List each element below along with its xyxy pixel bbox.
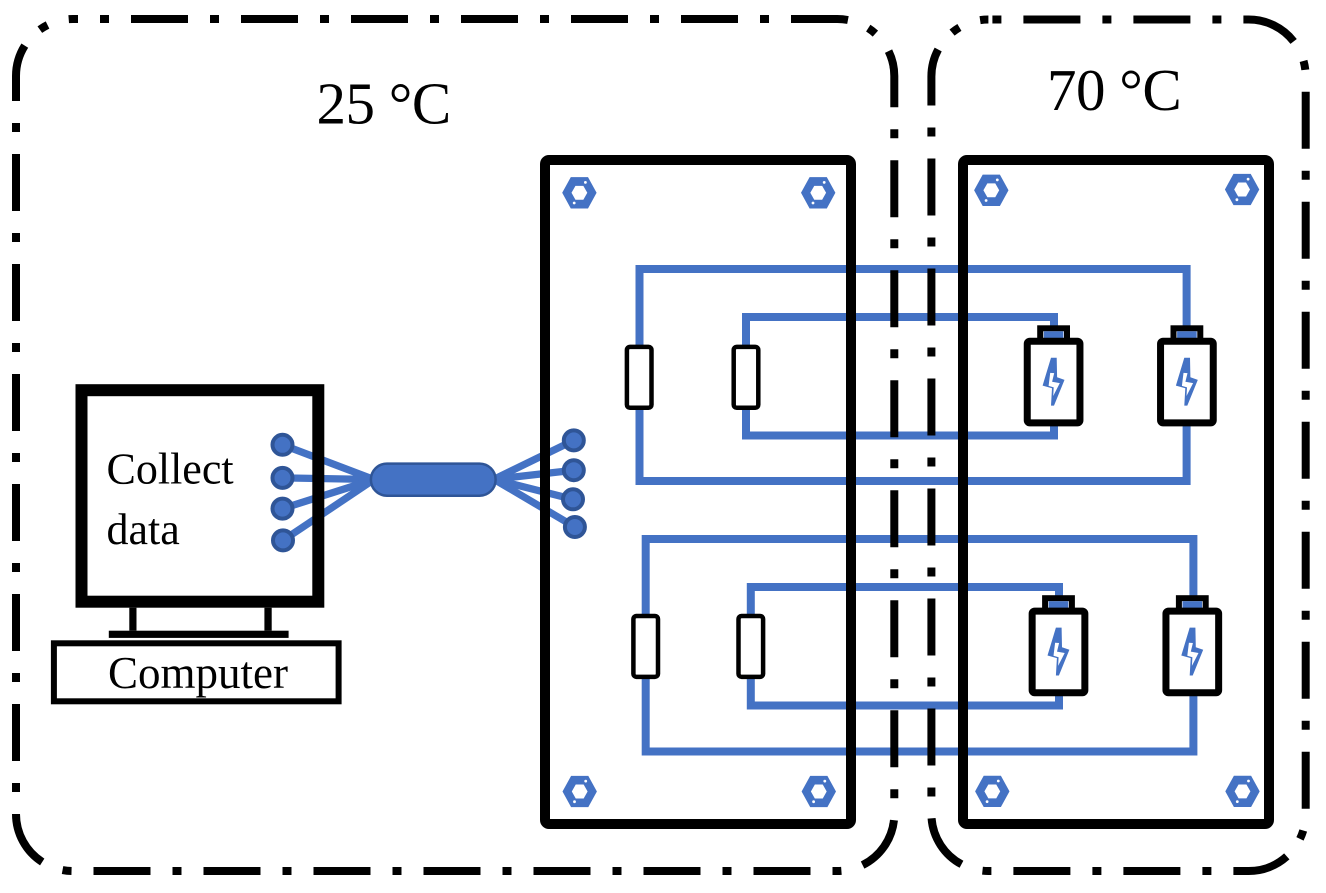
wire fan from monitor to cable <box>283 445 375 541</box>
nut board1 bottom-right <box>802 776 836 807</box>
monitor stand neck <box>129 608 271 631</box>
computer monitor frame <box>82 390 319 602</box>
battery B3 <box>1032 598 1085 693</box>
board 1 (25C test board) <box>545 160 851 824</box>
nut board2 bottom-right <box>1225 776 1259 807</box>
battery B4 <box>1166 598 1219 693</box>
wire top outer loop (R1-B2) <box>640 269 1187 481</box>
wire bottom inner loop (R4-B3) <box>751 587 1059 706</box>
node pins on board <box>563 430 585 537</box>
label 25 C <box>317 71 451 137</box>
board 2 (70C test board) <box>963 160 1269 824</box>
svg-text:data: data <box>107 505 180 554</box>
wire bottom outer loop (R3-B4) <box>646 539 1194 752</box>
svg-text:Computer: Computer <box>108 648 288 698</box>
nut board1 top-right <box>801 177 835 208</box>
nut board1 top-left <box>562 177 596 208</box>
wire fan from cable to board <box>494 440 575 527</box>
resistor R3 <box>633 616 658 677</box>
label Computer <box>108 648 288 698</box>
25C chamber dash-dot border <box>16 19 894 871</box>
svg-text:25 °C: 25 °C <box>317 71 451 137</box>
resistor R2 <box>734 347 759 408</box>
nut board2 bottom-left <box>975 776 1009 807</box>
label Collect data <box>107 445 234 555</box>
nut board2 top-left <box>974 175 1008 206</box>
wire top inner loop (R2-B1) <box>746 317 1054 436</box>
resistor R1 <box>627 347 652 408</box>
battery B1 <box>1027 328 1080 423</box>
computer base box <box>54 643 339 701</box>
battery B2 <box>1161 328 1214 423</box>
nut board2 top-right <box>1225 174 1259 205</box>
svg-text:70 °C: 70 °C <box>1047 57 1181 123</box>
70C chamber dash-dot border <box>931 20 1305 872</box>
resistor R4 <box>739 616 764 677</box>
monitor stand foot <box>109 631 289 638</box>
nut board1 bottom-left <box>563 776 597 807</box>
svg-text:Collect: Collect <box>107 445 234 494</box>
label 70 C <box>1047 57 1181 123</box>
node pins on monitor <box>273 435 294 551</box>
cable bundle capsule <box>371 464 496 496</box>
monitor screen fill <box>76 384 325 608</box>
